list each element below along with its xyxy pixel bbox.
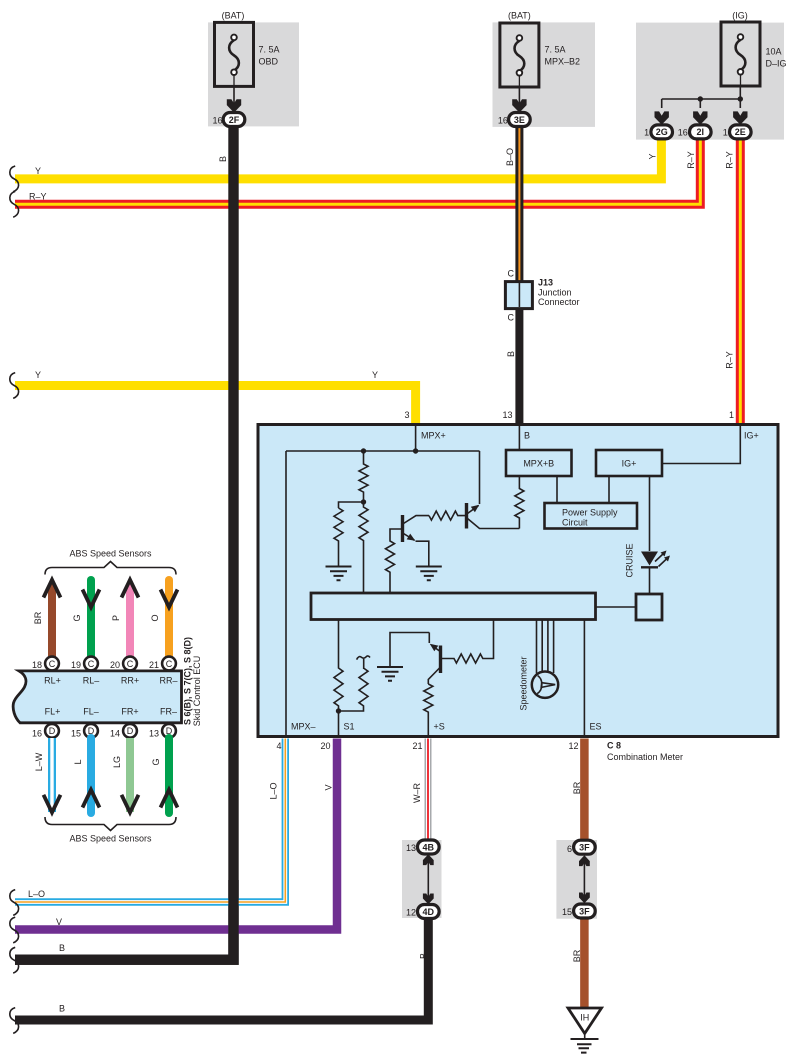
continuation squiggle R-Y <box>10 191 19 217</box>
sensor wire BR <box>48 584 56 657</box>
resistor R2 (to ground) <box>334 508 343 567</box>
svg-text:(IG): (IG) <box>732 10 748 20</box>
svg-text:13: 13 <box>406 843 416 853</box>
svg-text:BR: BR <box>572 949 582 962</box>
fuse F3 10A D-IG <box>721 22 760 86</box>
svg-text:C: C <box>127 659 134 669</box>
svg-text:3F: 3F <box>579 906 590 916</box>
driver square box <box>636 594 662 620</box>
wire B (from J13 to pin 13) <box>515 308 523 423</box>
svg-text:IG+: IG+ <box>622 459 637 469</box>
sensor wire P <box>126 584 134 657</box>
node dot S1 <box>336 708 341 713</box>
wire MPX+ pin stub to node <box>415 426 417 451</box>
svg-text:MPX–B2: MPX–B2 <box>545 57 581 67</box>
fuse block shade (BAT MPX-B2) <box>493 22 596 127</box>
wire B-O (from 3E to J13) <box>515 126 523 281</box>
svg-text:IG+: IG+ <box>744 431 759 441</box>
svg-text:FR–: FR– <box>160 707 177 717</box>
combination meter box C8 <box>258 425 778 737</box>
svg-text:16: 16 <box>678 128 688 138</box>
svg-text:Connector: Connector <box>538 297 580 307</box>
svg-text:13: 13 <box>149 729 159 739</box>
svg-text:B–O: B–O <box>505 148 515 166</box>
wire BR (3F to ground) <box>580 918 589 1009</box>
svg-text:V: V <box>56 917 62 927</box>
svg-text:(BAT): (BAT) <box>222 10 245 20</box>
svg-text:C: C <box>508 269 515 279</box>
box power supply circuit <box>545 503 638 529</box>
continuation squiggle B lower <box>10 1008 19 1034</box>
svg-text:(BAT): (BAT) <box>508 10 531 20</box>
continuation squiggle V <box>10 917 19 943</box>
svg-text:D–IG: D–IG <box>766 59 787 69</box>
transistor Q2 bar <box>465 503 468 529</box>
svg-text:6: 6 <box>567 844 572 854</box>
svg-text:IH: IH <box>580 1013 589 1023</box>
svg-text:B: B <box>506 351 516 357</box>
LED CRUISE <box>641 552 658 566</box>
wire Y (lower horizontal, to MPX+ pin 3) <box>15 386 416 424</box>
continuation squiggle L-O <box>10 890 19 916</box>
wire MPX+B to power supply <box>556 476 558 503</box>
svg-text:7. 5A: 7. 5A <box>545 45 566 55</box>
wire B over (redraw vertical over L-O/V) <box>15 880 234 960</box>
wire bus to square <box>596 606 636 608</box>
svg-text:L–W: L–W <box>34 752 44 771</box>
terminal arrow F1 <box>233 86 235 106</box>
svg-text:S 6(B), S 7(C), S 8(D): S 6(B), S 7(C), S 8(D) <box>183 637 193 725</box>
svg-text:J13: J13 <box>538 278 553 288</box>
resistor R4 (horizontal) <box>429 511 465 520</box>
svg-text:18: 18 <box>32 660 42 670</box>
LED light arrows <box>655 554 667 567</box>
wire R-Y (upper horizontal, to 2I) <box>15 139 700 204</box>
connector block 3F/3F <box>556 840 597 919</box>
Q2 bottom lead to R6 bottom <box>468 519 520 529</box>
speedometer wires <box>537 620 554 674</box>
wire from fuse F3 to distribution <box>662 86 741 108</box>
resistor R6 (below MPX+B) <box>515 476 524 529</box>
svg-text:2I: 2I <box>697 127 705 137</box>
wire bus to ES pin <box>583 620 585 735</box>
pin 18 C <box>45 657 59 671</box>
svg-text:12: 12 <box>406 907 416 917</box>
svg-text:Y: Y <box>648 153 658 159</box>
svg-text:1: 1 <box>644 128 649 138</box>
junction dot <box>738 96 743 101</box>
svg-text:3: 3 <box>404 410 409 420</box>
svg-text:1: 1 <box>729 410 734 420</box>
sensor coil curl <box>357 656 370 660</box>
svg-text:7. 5A: 7. 5A <box>259 45 280 55</box>
svg-text:Skid Control ECU: Skid Control ECU <box>192 656 202 727</box>
pin 16 D <box>45 724 59 738</box>
svg-text:16: 16 <box>212 115 222 125</box>
Q1 collector to R4 <box>404 516 430 524</box>
transistor Q3 bar <box>439 646 442 674</box>
connector 2G pin 1 <box>651 125 673 139</box>
svg-text:21: 21 <box>149 660 159 670</box>
pin 20 C <box>123 657 137 671</box>
junction connector J13 <box>505 282 532 309</box>
svg-text:C: C <box>88 659 95 669</box>
continuation squiggle B <box>10 947 19 973</box>
svg-text:R–Y: R–Y <box>686 151 696 169</box>
svg-text:16: 16 <box>32 729 42 739</box>
node dot divider <box>361 499 366 504</box>
svg-text:MPX–: MPX– <box>291 722 316 732</box>
svg-text:R–Y: R–Y <box>725 151 735 169</box>
fuse block shade (IG D-IG) <box>636 23 784 140</box>
fuse block shade (BAT OBD) <box>208 22 299 126</box>
sensor wire L <box>87 738 95 813</box>
wire rail down to Q2 emitter <box>479 451 481 504</box>
svg-text:4D: 4D <box>423 907 435 917</box>
svg-text:LG: LG <box>112 756 122 768</box>
svg-text:C 8: C 8 <box>607 741 621 751</box>
svg-text:ABS Speed Sensors: ABS Speed Sensors <box>69 834 152 844</box>
wire IG+ to power supply <box>608 476 610 503</box>
svg-text:4B: 4B <box>423 842 435 852</box>
connector 2E pin 1 <box>730 125 752 139</box>
svg-text:Junction: Junction <box>538 287 572 297</box>
svg-text:L–O: L–O <box>269 782 279 799</box>
svg-text:MPX+B: MPX+B <box>523 459 554 469</box>
svg-text:Combination Meter: Combination Meter <box>607 752 683 762</box>
svg-text:13: 13 <box>502 410 512 420</box>
wire MPX- vertical <box>285 451 287 735</box>
wire bus to S1 resistor <box>334 620 343 735</box>
svg-text:Speedometer: Speedometer <box>519 656 529 710</box>
svg-text:RR+: RR+ <box>121 676 139 686</box>
svg-text:B: B <box>59 943 65 953</box>
wire B pin to MPX+B <box>518 426 520 450</box>
box MPX+B <box>506 450 572 476</box>
ground G3 wire <box>390 633 429 668</box>
svg-text:19: 19 <box>71 660 81 670</box>
svg-text:4: 4 <box>276 741 281 751</box>
wire IG+ pin 1 down to IG+ box <box>662 426 740 464</box>
svg-text:L: L <box>73 759 83 764</box>
svg-text:16: 16 <box>498 115 508 125</box>
svg-text:2E: 2E <box>735 127 746 137</box>
Q3 emitter with arrow (to ground wire) <box>428 633 430 644</box>
Q1 base wire and resistor R5 to bus <box>386 529 403 593</box>
ground G1 <box>326 567 352 581</box>
wire internal top rail <box>286 450 480 452</box>
svg-text:C: C <box>49 659 56 669</box>
ground IH triangle <box>568 1008 602 1034</box>
svg-text:B: B <box>59 1004 65 1014</box>
svg-text:R–Y: R–Y <box>725 351 735 369</box>
pin 14 D <box>123 724 137 738</box>
wire W-R (pin 21 to 4B) <box>425 739 432 842</box>
svg-text:FL+: FL+ <box>45 707 61 717</box>
wire V (pin 20 to left) <box>15 739 337 930</box>
svg-text:D: D <box>49 726 56 736</box>
wire L-O (pin 4 to left) <box>15 739 285 903</box>
svg-text:L–O: L–O <box>28 889 45 899</box>
svg-text:V: V <box>324 784 334 790</box>
svg-text:15: 15 <box>71 729 81 739</box>
resistor R7 (sensor to S1 node) <box>341 668 368 711</box>
svg-text:10A: 10A <box>766 47 782 57</box>
continuation squiggle Y <box>10 166 19 192</box>
svg-text:20: 20 <box>110 660 120 670</box>
Q3 collector to R9 <box>428 668 439 684</box>
Q1 emitter with arrow <box>404 534 415 541</box>
resistor R3 (divider to bus) <box>359 502 368 593</box>
svg-text:MPX+: MPX+ <box>421 431 446 441</box>
svg-text:12: 12 <box>568 741 578 751</box>
ground IH hatch <box>584 1034 586 1040</box>
svg-text:B: B <box>218 156 228 162</box>
fuse F1 7.5A OBD <box>215 22 254 86</box>
Q3 base wire and resistor R8 to bus <box>441 620 494 663</box>
svg-text:G: G <box>151 758 161 765</box>
continuation squiggle Y lower <box>10 373 19 399</box>
svg-text:20: 20 <box>320 741 330 751</box>
wire B (4D to bottom left) <box>15 918 428 1021</box>
svg-text:C: C <box>508 313 515 323</box>
fuse F2 7.5A MPX-B2 <box>500 23 539 87</box>
svg-text:W–R: W–R <box>412 783 422 804</box>
svg-text:3E: 3E <box>514 115 525 125</box>
svg-text:15: 15 <box>562 907 572 917</box>
svg-text:1: 1 <box>723 128 728 138</box>
terminal arrow to 2I <box>693 111 707 124</box>
svg-text:R–Y: R–Y <box>29 192 47 202</box>
wire Y (upper horizontal, to 2G) <box>15 139 661 179</box>
pin 13 D <box>162 724 176 738</box>
sensor wire L-W <box>48 738 56 812</box>
svg-text:Y: Y <box>35 166 41 176</box>
terminal arrow F2 <box>518 87 520 106</box>
connector 2F pin 16 <box>223 113 245 127</box>
wire B (thick, from 2F down and across bottom) <box>15 126 234 959</box>
svg-text:2F: 2F <box>229 115 240 125</box>
resistor R1 (rail to divider) <box>359 451 368 502</box>
svg-text:FR+: FR+ <box>121 707 138 717</box>
terminal arrow to 2E <box>733 111 747 124</box>
connector block 4B/4D <box>402 840 442 918</box>
wire BR (pin 12 to 3F) <box>580 739 589 842</box>
sensor wire G2 <box>165 738 173 813</box>
pin 19 C <box>84 657 98 671</box>
speedometer <box>532 672 558 698</box>
resistor R9 (to +S pin) <box>424 684 433 735</box>
svg-text:Y: Y <box>35 370 41 380</box>
svg-text:BR: BR <box>33 611 43 624</box>
svg-text:ABS Speed Sensors: ABS Speed Sensors <box>69 549 152 559</box>
svg-text:+S: +S <box>434 722 445 732</box>
wire divider to R2 <box>339 502 364 508</box>
wire IG+ box to LED <box>649 476 651 551</box>
terminal arrow to 2G <box>655 111 669 124</box>
skid control ECU box <box>13 671 181 723</box>
svg-text:B: B <box>419 953 429 959</box>
svg-text:RR–: RR– <box>159 676 177 686</box>
svg-text:3F: 3F <box>579 843 590 853</box>
connector 2I pin 16 <box>690 125 712 139</box>
svg-text:G: G <box>72 614 82 621</box>
node dot on rail <box>361 448 366 453</box>
svg-text:CRUISE: CRUISE <box>625 543 635 577</box>
svg-text:OBD: OBD <box>259 57 279 67</box>
box IG+ <box>596 450 662 476</box>
svg-text:O: O <box>150 614 160 621</box>
svg-text:C: C <box>166 659 173 669</box>
svg-text:D: D <box>127 726 134 736</box>
sensor wire O <box>165 580 173 657</box>
Q1 emitter wire to ground <box>416 541 429 566</box>
svg-text:14: 14 <box>110 729 120 739</box>
bus bar box <box>311 593 596 620</box>
svg-text:S1: S1 <box>344 722 355 732</box>
wire R-Y (vertical from 2E to IG+ pin 1) <box>736 139 745 424</box>
brace bottom <box>45 817 176 831</box>
svg-text:FL–: FL– <box>83 707 99 717</box>
svg-text:Circuit: Circuit <box>562 518 588 528</box>
junction dot <box>698 96 703 101</box>
wire LED to square <box>649 567 651 594</box>
svg-text:Y: Y <box>372 370 378 380</box>
svg-text:2G: 2G <box>656 127 668 137</box>
brace top <box>45 562 176 575</box>
ground G3 <box>377 667 403 681</box>
svg-text:P: P <box>111 615 121 621</box>
ground G2 <box>416 567 442 581</box>
transistor Q1 bar <box>401 515 404 542</box>
sensor wire G <box>87 580 95 657</box>
sensor wire LG <box>126 738 134 812</box>
node dot on rail (MPX+) <box>413 448 418 453</box>
svg-text:RL–: RL– <box>83 676 100 686</box>
svg-text:B: B <box>524 431 530 441</box>
svg-text:21: 21 <box>412 741 422 751</box>
pin 15 D <box>84 724 98 738</box>
connector 3E pin 16 <box>509 113 531 127</box>
svg-text:BR: BR <box>572 781 582 794</box>
Q2 top lead with arrow (to rail) <box>468 506 479 514</box>
pin 21 C <box>162 657 176 671</box>
svg-text:ES: ES <box>590 722 602 732</box>
svg-text:RL+: RL+ <box>44 676 61 686</box>
svg-text:Power Supply: Power Supply <box>562 508 618 518</box>
